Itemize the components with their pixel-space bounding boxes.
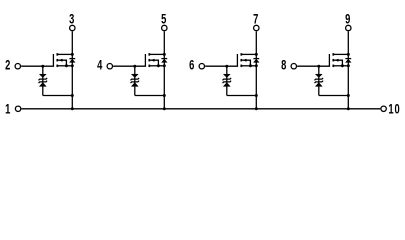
junction dot: Q3 body tie to source lead	[249, 64, 252, 67]
svg-text:1: 1	[5, 101, 11, 117]
wire: Q2 drain lead	[149, 53, 164, 55]
zener diode ZD2a anode triangle (points down)	[131, 74, 138, 77]
wire: Q3 drain lead	[241, 53, 256, 55]
wire: drain of Q3 from pin 7 down to source rail	[255, 31, 257, 108]
transistor Q4 channel segment (source side)	[332, 65, 334, 68]
junction dot: Q2 source line / rail	[163, 107, 166, 110]
zener diode ZD3b anode triangle (points up)	[223, 83, 230, 87]
junction dot: Q4 body tie to source lead	[341, 64, 344, 67]
zener diode ZD1b cathode bar	[39, 81, 48, 83]
junction dot: Q2 source lead / source line	[163, 64, 166, 67]
wire: gate of Q3 from pin 6	[205, 65, 238, 67]
wire: Q1 body lead with corner down to source lead	[58, 60, 66, 66]
junction dot: Q4 source lead / source line	[347, 64, 350, 67]
pin 7 terminal circle	[254, 25, 259, 30]
transistor Q1 gate electrode	[52, 54, 54, 66]
zener diode ZD2b cathode bar	[131, 81, 140, 83]
pin 3 terminal circle	[70, 25, 75, 30]
wire: drain of Q1 from pin 3 down to source rail	[71, 31, 73, 108]
junction dot: gate wire / zener stack node Q2	[133, 65, 136, 68]
transistor Q2 channel segment (drain side)	[148, 53, 150, 56]
transistor Q3 body arrow (points to channel, N-channel)	[243, 59, 246, 62]
transistor Q4 channel segment (drain side)	[332, 53, 334, 56]
junction dot: zener return / source line Q3	[255, 94, 258, 97]
pin 1 terminal circle	[15, 106, 20, 111]
junction dot: Q2 body tie to source lead	[157, 64, 160, 67]
transistor Q1 channel segment (source side)	[56, 65, 58, 68]
svg-text:10: 10	[388, 101, 400, 117]
svg-text:8: 8	[281, 56, 287, 72]
transistor Q1 channel segment (drain side)	[56, 53, 58, 56]
transistor Q2 channel segment (source side)	[148, 65, 150, 68]
junction dot: zener return / source line Q4	[347, 94, 350, 97]
wire: Q1 drain lead	[57, 53, 72, 55]
transistor Q1 body arrow (points to channel, N-channel)	[59, 59, 62, 62]
body diode D3 cathode bar	[253, 58, 259, 60]
junction dot: Q4 drain lead / drain line	[347, 53, 350, 56]
junction dot: Q1 drain lead / drain line	[71, 53, 74, 56]
junction dot: zener return / source line Q2	[163, 94, 166, 97]
body diode D4 anode triangle	[346, 59, 352, 62]
transistor Q4 body arrow (points to channel, N-channel)	[335, 59, 338, 62]
wire: zener stack vertical lead Q4	[318, 66, 320, 95]
wire: Q4 drain lead	[333, 53, 348, 55]
zener diode ZD1a anode triangle (points down)	[39, 74, 46, 77]
wire: zener return jog to source line Q3	[227, 95, 256, 97]
junction dot: Q3 source line / rail	[255, 107, 258, 110]
wire: drain of Q2 from pin 5 down to source rail	[163, 31, 165, 108]
zener diode ZD3b cathode bar	[223, 81, 232, 83]
pin 10 terminal circle	[381, 106, 386, 111]
transistor Q3 gate electrode	[236, 54, 238, 66]
pin 2 terminal circle	[15, 63, 20, 68]
zener diode ZD2b anode triangle (points up)	[131, 83, 138, 87]
wire: gate of Q1 from pin 2	[21, 65, 54, 67]
transistor Q3 channel segment (body)	[240, 59, 242, 62]
pin 9 terminal circle	[346, 25, 351, 30]
zener diode ZD4b cathode bar	[315, 81, 324, 83]
zener diode ZD4b anode triangle (points up)	[315, 83, 322, 87]
wire: Q1 source lead	[57, 65, 72, 67]
wire: drain of Q4 from pin 9 down to source rail	[347, 31, 349, 108]
junction dot: Q4 source line / rail	[347, 107, 350, 110]
transistor Q3 channel segment (source side)	[240, 65, 242, 68]
zener diode ZD4a cathode bar	[315, 78, 324, 80]
wire: Q4 body lead with corner down to source lead	[334, 60, 342, 66]
body diode D1 cathode bar	[69, 58, 75, 60]
zener diode ZD4a anode triangle (points down)	[315, 74, 322, 77]
pin 5 terminal circle	[162, 25, 167, 30]
wire: Q3 source lead	[241, 65, 256, 67]
zener diode ZD1a cathode bar	[39, 78, 48, 80]
pin 8 terminal circle	[291, 63, 296, 68]
wire: Q2 source lead	[149, 65, 164, 67]
transistor Q4 channel segment (body)	[332, 59, 334, 62]
svg-text:2: 2	[5, 56, 11, 72]
wire: zener return jog to source line Q1	[43, 95, 73, 97]
junction dot: gate wire / zener stack node Q4	[317, 65, 320, 68]
wire: zener stack vertical lead Q1	[42, 66, 44, 95]
junction dot: Q3 source lead / source line	[255, 64, 258, 67]
svg-text:6: 6	[189, 56, 195, 72]
body diode D1 anode triangle	[70, 59, 76, 62]
junction dot: gate wire / zener stack node Q1	[41, 65, 44, 68]
junction dot: Q1 source lead / source line	[71, 64, 74, 67]
junction dot: zener return / source line Q1	[71, 94, 74, 97]
zener diode ZD1b anode triangle (points up)	[39, 83, 46, 87]
transistor Q4 gate electrode	[328, 54, 330, 66]
junction dot: Q2 drain lead / drain line	[163, 53, 166, 56]
transistor Q2 body arrow (points to channel, N-channel)	[151, 59, 154, 62]
transistor Q3 channel segment (drain side)	[240, 53, 242, 56]
transistor Q2 channel segment (body)	[148, 59, 150, 62]
junction dot: Q1 source line / rail	[71, 107, 74, 110]
zener diode ZD3a anode triangle (points down)	[223, 74, 230, 77]
wire: Q4 source lead	[333, 65, 348, 67]
zener diode ZD3a cathode bar	[223, 78, 232, 80]
transistor Q1 channel segment (body)	[56, 59, 58, 62]
wire: zener return jog to source line Q4	[319, 95, 349, 97]
wire: common source rail (pin 1 to pin 10)	[21, 108, 380, 110]
body diode D3 anode triangle	[254, 59, 260, 62]
wire: zener return jog to source line Q2	[135, 95, 165, 97]
zener diode ZD2a cathode bar	[131, 78, 140, 80]
body diode D2 anode triangle	[162, 59, 168, 62]
wire: Q3 body lead with corner down to source lead	[242, 60, 250, 66]
body diode D2 cathode bar	[161, 58, 167, 60]
junction dot: gate wire / zener stack node Q3	[225, 65, 228, 68]
svg-text:4: 4	[97, 56, 103, 72]
wire: gate of Q2 from pin 4	[113, 65, 146, 67]
wire: gate of Q4 from pin 8	[297, 65, 330, 67]
wire: zener stack vertical lead Q2	[134, 66, 136, 95]
pin 4 terminal circle	[107, 63, 112, 68]
body diode D4 cathode bar	[345, 58, 351, 60]
pin 6 terminal circle	[199, 63, 204, 68]
wire: zener stack vertical lead Q3	[226, 66, 228, 95]
wire: Q2 body lead with corner down to source lead	[150, 60, 158, 66]
junction dot: Q1 body tie to source lead	[65, 64, 68, 67]
transistor Q2 gate electrode	[144, 54, 146, 66]
junction dot: Q3 drain lead / drain line	[255, 53, 258, 56]
